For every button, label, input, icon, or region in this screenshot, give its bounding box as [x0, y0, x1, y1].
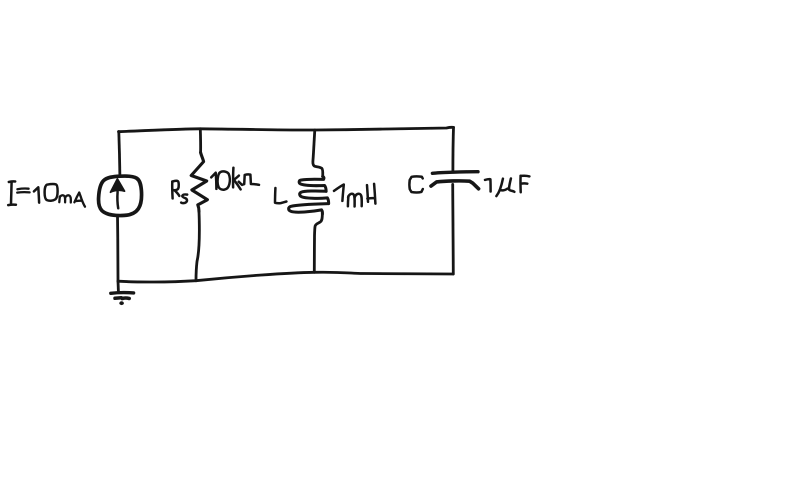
ground symbol [111, 281, 134, 305]
wire: current source to bottom rail [116, 215, 119, 281]
current source I (circle symbol) [99, 176, 142, 216]
wire: top rail (node between all branches) [119, 127, 454, 131]
label L [275, 188, 286, 203]
current source arrow (upward) [116, 192, 119, 209]
label R_s [172, 181, 187, 203]
wire: resistor branch, top rail to zigzag [199, 129, 202, 153]
wire: inductor coil to bottom rail [314, 214, 322, 272]
wire: capacitor bottom plate to bottom rail [451, 184, 454, 274]
inductor L coil (3 loops) [289, 176, 329, 214]
wire: capacitor branch, top rail to top plate [451, 127, 454, 171]
label 1μF (value of C) [485, 176, 529, 196]
resistor R_s zigzag [191, 153, 207, 212]
label C [409, 176, 422, 192]
wire: left branch, top rail to current source [119, 132, 120, 177]
label I=10mA [8, 181, 85, 206]
wire: inductor branch, top rail to coil [313, 130, 323, 176]
wire: resistor zigzag to bottom rail [196, 212, 199, 281]
label 1mH (value of L) [334, 184, 375, 207]
wire: bottom rail [118, 272, 453, 282]
capacitor C plates [431, 172, 479, 189]
label 10kΩ (value of R_s) [211, 168, 259, 190]
